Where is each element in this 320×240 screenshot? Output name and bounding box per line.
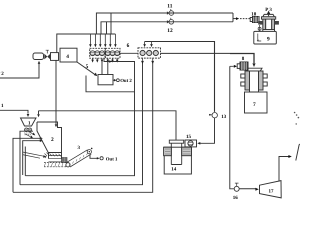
chute 5 slant (77, 62, 97, 76)
scrubber column above tank 9 (258, 14, 279, 31)
svg-text:10: 10 (251, 12, 256, 18)
feeder group A left box (90, 48, 120, 58)
svg-text:5: 5 (86, 64, 89, 70)
valve 12 (167, 18, 174, 24)
tank 9 (254, 31, 276, 44)
header pipe to valve 13 (145, 42, 215, 112)
wire pipe P12 (101, 13, 233, 34)
arrow into reactor 7 (252, 63, 255, 67)
svg-text:7: 7 (253, 102, 256, 108)
quench tank 14 body (164, 147, 192, 174)
arrows out of group A bottom (91, 58, 118, 62)
svg-text:2: 2 (51, 137, 54, 143)
grate layers in throat (49, 156, 62, 162)
dots mark (294, 112, 299, 125)
conveyor 3 (66, 150, 92, 167)
grate drive motor (62, 158, 68, 163)
wire water wall mid right x=142.5 (20, 58, 144, 185)
turbine 17 (260, 181, 282, 198)
node conveyor top dot (91, 148, 93, 150)
wire furnace lining x=25.3 (24, 147, 26, 176)
svg-text:15: 15 (186, 134, 192, 140)
svg-text:9: 9 (267, 36, 270, 42)
node manifold bar to feed box B (57, 34, 116, 52)
quench tank 14 flange (169, 140, 183, 143)
valve inlet assembly left: feed box A (33, 53, 44, 60)
reactor 7 column (241, 71, 267, 92)
wire fly ash line chute to quench tank (37, 111, 176, 140)
chute 2 (37, 122, 62, 159)
slag box out2 (98, 75, 113, 85)
wire group B outlet pipe to reactor 7 (120, 52, 230, 54)
wire furnace wall left inner x=22.7 (23, 139, 43, 175)
arrow vent P3 (267, 11, 271, 17)
hatch at chute foot (44, 153, 62, 159)
tank 7 (245, 92, 268, 113)
feeder group A rollers (90, 51, 119, 56)
feed box B (51, 53, 59, 61)
svg-text:3: 3 (78, 145, 81, 151)
svg-text:16: 16 (233, 195, 239, 200)
reactor 7 column top arrow stem (246, 68, 262, 71)
svg-text:12: 12 (167, 28, 173, 34)
wire water wall inner dogleg from feeder A (25, 58, 134, 176)
grate ash band (44, 163, 69, 167)
wire furnace wall left mid x=20 (20, 131, 33, 185)
svg-text:Out 1: Out 1 (106, 156, 118, 162)
valve on tank 9 inlet (258, 25, 261, 31)
svg-text:1: 1 (1, 103, 4, 109)
crusher rollers (24, 128, 32, 135)
wire from feed box B down to chute 2 (55, 61, 58, 128)
feeder group B rollers (140, 50, 158, 55)
wire to Out 2 port (113, 79, 119, 82)
svg-text:4: 4 (66, 54, 69, 60)
arrows header into group B (143, 42, 153, 48)
wire water wall outer right x=152.7 (13, 58, 154, 192)
svg-text:11: 11 (167, 4, 172, 10)
svg-text:Out 2: Out 2 (120, 78, 132, 84)
wire pump 8 suction drop to pump 16 (230, 65, 237, 189)
wire manifold stubs with arrows into feeder group (89, 34, 117, 47)
svg-text:14: 14 (171, 166, 177, 172)
svg-text:8: 8 (242, 56, 245, 62)
wire pipe taps (107, 13, 112, 34)
box 4 feeder (60, 48, 77, 62)
quench tank 14 inner tube (171, 143, 181, 164)
svg-text:6: 6 (127, 43, 130, 49)
wire turbine exhaust (279, 155, 292, 181)
wire furnace wall left outer x=13 (13, 137, 43, 192)
valve 13 (209, 113, 217, 118)
valve with actuator (44, 50, 50, 59)
pump 10 (250, 17, 259, 23)
wire outlet stub to pump 10 with arrow and dashes (233, 17, 250, 20)
wire wall slant feed into grate (23, 152, 47, 158)
condenser edge cut at border (296, 144, 300, 160)
arrows crusher discharge (25, 131, 35, 139)
svg-text:17: 17 (269, 189, 275, 195)
pump 15 (185, 140, 197, 147)
feeder group B box (138, 48, 161, 58)
wire pump 16 to turbine 17 (239, 188, 258, 191)
wire feed line into hopper 1 (0, 110, 29, 117)
valve 11 (167, 9, 174, 15)
wire pipe P11 top (96, 13, 233, 34)
pump 8 (237, 62, 248, 70)
wires group A down to slag box (101, 58, 109, 74)
svg-text:P 2: P 2 (0, 71, 4, 77)
pump 16 (234, 183, 239, 191)
wire P2 feed line with arrow (0, 61, 40, 78)
svg-text:13: 13 (221, 114, 227, 120)
wire valve 13 down to pump 15 (197, 118, 214, 145)
hopper 1 (21, 118, 37, 126)
wire conveyor to Out 1 (90, 155, 103, 160)
wire slag line to out2 collector (86, 76, 135, 92)
